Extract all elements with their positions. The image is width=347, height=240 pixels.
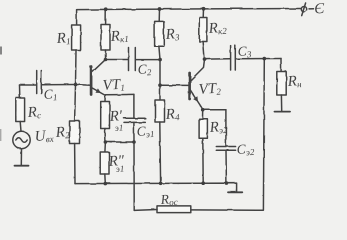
node dot R1/C1 junction — [74, 83, 78, 87]
capacitor C2 — [106, 48, 161, 71]
wire top supply rail — [77, 9, 301, 10]
emitter arrow VT1 — [96, 88, 102, 93]
svg-text:Є: Є — [314, 1, 326, 18]
node dot Re2 bottom rail — [201, 181, 205, 185]
capacitor Ce2 — [203, 110, 236, 183]
resistor R4 — [155, 60, 165, 184]
svg-text:э1: э1 — [114, 122, 123, 133]
node dot VT2 emitter — [201, 108, 205, 112]
node dot VT1 collector — [104, 58, 108, 62]
scan artifact left edge upper — [0, 47, 2, 55]
node dot VT2 collector — [203, 57, 207, 61]
capacitor Ce1 (parallel with Re1') — [105, 94, 145, 142]
node dot VT2 base branch — [158, 83, 162, 87]
transistor VT2 — [190, 59, 205, 108]
wire VT2 base — [160, 84, 189, 86]
capacitor C1 — [20, 71, 76, 94]
node dot Ce1 bottom junction — [132, 140, 136, 144]
terminal -E — [301, 3, 313, 16]
node dot R3 top rail — [158, 7, 162, 11]
node dot R4 bottom rail — [159, 182, 163, 186]
scan artifact left edge lower — [0, 129, 1, 141]
node dot RK2 top rail — [202, 7, 206, 11]
node dot Re1'' bottom rail — [104, 182, 108, 186]
emitter arrow VT2 — [193, 96, 198, 102]
node dot Ce2 bottom rail — [225, 181, 229, 185]
node dot output C3/RH — [263, 57, 267, 61]
resistor RK2 — [199, 9, 207, 59]
resistor Re2 (emitter resistor VT2) — [199, 110, 207, 184]
resistor R2 — [70, 85, 80, 184]
ground under RH — [275, 111, 291, 113]
resistor R1 — [72, 10, 81, 85]
node dot RK1 top rail — [104, 7, 108, 11]
wire emitter-1 junction — [105, 141, 134, 143]
resistor RK1 — [101, 9, 110, 59]
resistor Rc (source resistance) — [16, 85, 25, 131]
ground bottom-rail — [228, 191, 242, 193]
transistor VT1 — [76, 60, 106, 95]
node dot Re1 junction left — [104, 140, 108, 144]
ground under Uvx — [15, 149, 29, 166]
wire bottom rail — [75, 183, 237, 192]
resistor Re1'' (lower emitter resistor VT1) — [100, 142, 109, 184]
resistor Re1' (upper emitter resistor VT1) — [101, 95, 110, 142]
resistor Roc (feedback) — [134, 142, 191, 213]
source Uvx (sine generator) — [13, 131, 30, 148]
wire feedback vertical from output node — [191, 59, 264, 211]
capacitor C3 — [205, 46, 282, 70]
resistor RH (load) — [277, 59, 286, 111]
node dot C2/R3 — [158, 58, 162, 62]
svg-text:э1: э1 — [115, 163, 124, 174]
resistor R3 — [155, 9, 164, 60]
